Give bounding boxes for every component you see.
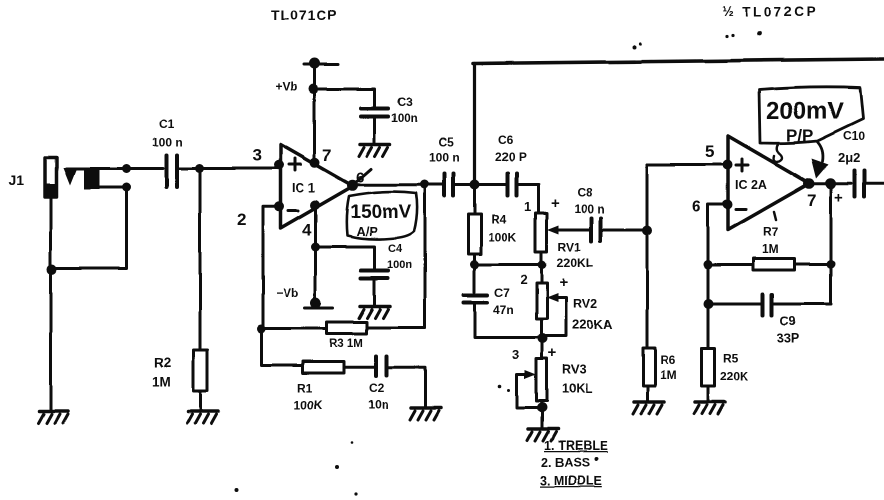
ground R6 (633, 402, 664, 414)
svg-text:100n: 100n (391, 113, 417, 125)
svg-text:100K: 100K (294, 398, 323, 412)
resistor R2 (194, 350, 208, 391)
svg-text:2: 2 (520, 272, 527, 287)
wire input to C1 (66, 167, 163, 170)
svg-text:220K: 220K (720, 369, 749, 383)
wire C3 to ground (373, 118, 376, 143)
wire R2 top (199, 169, 202, 351)
wire feedback down (424, 185, 427, 328)
speck (725, 34, 728, 37)
speck (731, 33, 734, 36)
wire R5 bottom (707, 386, 710, 401)
node output U2 (804, 178, 815, 189)
wire pin 7 to +Vb (313, 64, 316, 164)
svg-text:100 n: 100 n (574, 202, 605, 216)
svg-text:J1: J1 (8, 172, 24, 188)
potentiometer RV2 (537, 283, 548, 319)
op-amp IC1 plus sign (289, 159, 301, 171)
resistor R1 (303, 362, 344, 374)
wire node down to R1 (262, 329, 303, 366)
pin 6 node (723, 200, 733, 210)
svg-text:100 n: 100 n (429, 150, 460, 164)
svg-text:C2: C2 (369, 381, 385, 395)
wire C9 left (709, 303, 763, 306)
ground C3 (359, 144, 390, 156)
op-amp IC2A plus sign (736, 159, 748, 171)
svg-text:C8: C8 (577, 186, 593, 200)
svg-text:C6: C6 (498, 133, 514, 147)
wire C4 to ground (373, 279, 376, 306)
svg-text:C7: C7 (494, 286, 510, 300)
svg-text:1M: 1M (762, 242, 779, 256)
wire RV1 bottom (540, 252, 543, 265)
annotation squiggle (774, 144, 782, 161)
speck (351, 442, 354, 445)
wire C10 out (866, 182, 884, 185)
wire top rail (473, 59, 884, 64)
svg-text:+Vb: +Vb (275, 80, 297, 94)
svg-text:220KL: 220KL (557, 256, 593, 270)
svg-text:R7: R7 (763, 225, 779, 239)
node pin7 branch (309, 84, 319, 94)
op-amp IC2A triangle (728, 136, 810, 230)
svg-text:+: + (551, 195, 560, 212)
svg-text:+: + (559, 274, 568, 291)
pin 7 node (310, 158, 320, 168)
svg-text:C3: C3 (397, 95, 413, 109)
wire pin 2 left (263, 206, 279, 329)
wire R7 right (795, 263, 831, 266)
wire R3 to node (262, 327, 327, 330)
svg-text:5: 5 (705, 142, 714, 161)
wiper RV3 (517, 370, 540, 408)
wire node column (646, 231, 649, 349)
node sleeve (122, 183, 131, 192)
svg-text:3: 3 (512, 347, 519, 362)
svg-text:100n: 100n (387, 259, 412, 271)
svg-text:47n: 47n (493, 303, 514, 317)
node RV3 bottom (537, 403, 547, 413)
svg-text:2μ2: 2μ2 (838, 150, 860, 165)
annotation bubble 200mV P/P (759, 87, 863, 145)
svg-text:200mV: 200mV (766, 98, 843, 125)
speck (638, 42, 641, 45)
node C4 branch (311, 243, 320, 252)
svg-text:7: 7 (322, 146, 331, 165)
capacitor C1 (167, 155, 178, 187)
svg-text:C10: C10 (843, 129, 865, 143)
svg-text:+: + (834, 189, 843, 206)
resistor R5 (702, 348, 715, 386)
svg-text:1: 1 (524, 199, 531, 214)
node jack ground (47, 265, 57, 275)
pin 4 node (310, 200, 320, 210)
wire jack barrel stem (49, 198, 52, 269)
node RV1 bottom (538, 260, 547, 269)
speck (632, 45, 636, 49)
node C5 C6 junction (470, 180, 480, 190)
connector J1 tip contact (63, 168, 77, 186)
wire R4 bottom (473, 254, 476, 265)
annotation bubble 150mV A/P (346, 192, 417, 240)
svg-text:A/P: A/P (356, 224, 378, 239)
wire RV3 to ground (541, 401, 544, 429)
svg-text:3: 3 (252, 146, 261, 165)
node C8 right (642, 226, 652, 236)
svg-text:100K: 100K (488, 230, 517, 244)
wire C2 to ground (388, 367, 426, 407)
svg-text:RV3: RV3 (562, 363, 586, 377)
wire sleeve to loop (100, 186, 124, 189)
wire C9 right (774, 302, 831, 305)
svg-text:1M: 1M (152, 374, 171, 389)
svg-text:10n: 10n (368, 398, 389, 412)
svg-text:220KA: 220KA (572, 317, 613, 332)
svg-text:2: 2 (237, 210, 246, 229)
speck (498, 384, 502, 388)
capacitor C7 (464, 296, 487, 304)
svg-text:R5: R5 (723, 351, 739, 365)
capacitor C4 (361, 271, 388, 279)
speck (594, 457, 598, 461)
svg-text:2. BASS: 2. BASS (541, 456, 590, 470)
svg-text:3. MIDDLE: 3. MIDDLE (540, 474, 602, 488)
speck (335, 465, 339, 469)
svg-text:RV1: RV1 (558, 240, 581, 254)
wire RV2 top (540, 265, 543, 284)
wire pin 4 down (314, 205, 317, 302)
wire pin 6 loop (708, 205, 728, 349)
speck (758, 31, 763, 36)
capacitor C9 (764, 295, 773, 316)
op-amp IC2A minus sign (736, 208, 746, 211)
wire R4 top (473, 185, 476, 215)
wire RV2 bottom (540, 319, 543, 339)
svg-text:C9: C9 (780, 314, 796, 328)
svg-text:1. TREBLE: 1. TREBLE (544, 439, 608, 453)
svg-text:R3 1M: R3 1M (329, 338, 363, 350)
resistor R4 (468, 214, 481, 254)
svg-text:R2: R2 (154, 355, 171, 370)
op-amp IC1 minus sign (288, 209, 298, 212)
ground RV3 (527, 429, 558, 441)
svg-text:½ TL072CP: ½ TL072CP (722, 4, 818, 19)
wire C7 bottom (475, 304, 542, 338)
wiper RV1 (548, 225, 591, 234)
capacitor C3 (361, 109, 388, 117)
svg-text:33P: 33P (777, 331, 799, 345)
wire C7 top (473, 265, 476, 293)
wire R4 to RV1 bottom row (475, 263, 543, 266)
svg-text:TL071CP: TL071CP (271, 7, 338, 23)
wire to C3 (314, 89, 375, 107)
wire jack to ground (50, 270, 53, 412)
label tick R7 (774, 212, 776, 220)
svg-text:R1: R1 (297, 381, 313, 395)
annotation arrow to output (811, 142, 828, 178)
svg-text:7: 7 (807, 191, 816, 210)
potentiometer RV1 (536, 213, 548, 252)
node C1-R2 (195, 164, 204, 173)
speck (508, 389, 511, 392)
potentiometer RV3 (537, 359, 548, 401)
wire to C4 (316, 247, 375, 269)
wire R2 bottom (199, 391, 202, 411)
node RV2 bottom (538, 334, 548, 344)
ground R5 (694, 402, 725, 414)
speck (235, 488, 239, 492)
svg-text:R6: R6 (660, 353, 676, 367)
svg-text:4: 4 (302, 220, 312, 239)
ground C4 (359, 306, 390, 318)
wire feedback U2 (829, 183, 832, 303)
wire sleeve loop down-left (53, 187, 127, 269)
node C9 left (704, 299, 714, 309)
svg-text:P/P: P/P (786, 126, 813, 145)
svg-text:C5: C5 (438, 135, 454, 149)
svg-text:100 n: 100 n (152, 135, 183, 149)
svg-text:10KL: 10KL (562, 382, 593, 396)
terminal -Vb bar (305, 306, 333, 309)
wire C1 to pin 3 (179, 167, 278, 170)
node below R4 (470, 260, 479, 269)
wire output to C5 (353, 183, 425, 186)
wire RV3 top (541, 339, 544, 360)
capacitor C5 (427, 174, 473, 196)
wire junction up to rail (473, 64, 476, 185)
svg-text:1M: 1M (660, 368, 677, 382)
resistor R7 (754, 259, 795, 271)
wiper RV2 (546, 293, 566, 336)
connector J1 sleeve contact (84, 169, 100, 189)
node output U1 (347, 180, 358, 191)
node R7 left (704, 260, 713, 269)
wire R7 left (708, 263, 754, 266)
pin 5 node (723, 160, 733, 170)
wire R6 bottom (646, 386, 649, 401)
terminal +Vb bar (304, 63, 338, 66)
resistor R6 (643, 348, 655, 386)
speck (354, 492, 357, 495)
ground jack (39, 411, 68, 423)
connector J1 barrel (45, 158, 57, 198)
wire R1 to C2 (344, 366, 375, 369)
ground C2 (410, 408, 441, 420)
capacitor C6 (476, 174, 539, 213)
wire node to pin 5 (647, 165, 727, 231)
svg-text:150mV: 150mV (350, 202, 412, 223)
ground R2 (187, 411, 218, 423)
svg-text:−Vb: −Vb (276, 286, 298, 300)
node output C10 (825, 178, 836, 189)
svg-text:220 P: 220 P (495, 150, 526, 164)
op-amp IC1 triangle (281, 145, 354, 229)
svg-text:RV2: RV2 (573, 297, 597, 311)
svg-text:IC 1: IC 1 (292, 181, 315, 195)
capacitor C8 (592, 218, 646, 241)
pin 2 node (274, 201, 284, 211)
capacitor C2 (376, 357, 387, 376)
node minus junction (257, 325, 266, 334)
wire output U2 (809, 182, 831, 185)
capacitor C10 (855, 171, 865, 197)
svg-text:6: 6 (692, 199, 701, 216)
pin 3 node (274, 160, 284, 170)
svg-text:+: + (548, 345, 557, 362)
resistor R3 (327, 322, 367, 334)
svg-text:IC 2A: IC 2A (735, 178, 767, 192)
svg-text:R4: R4 (491, 212, 507, 226)
svg-text:C4: C4 (388, 243, 403, 255)
terminal +Vb node (309, 58, 320, 69)
svg-text:C1: C1 (159, 117, 175, 131)
wire output to C10 (832, 182, 852, 185)
node R7 right (826, 260, 835, 269)
terminal -Vb node (311, 297, 322, 308)
node on input wire (122, 164, 131, 173)
wire feedback to R3 (367, 326, 426, 329)
node feedback (420, 180, 429, 189)
